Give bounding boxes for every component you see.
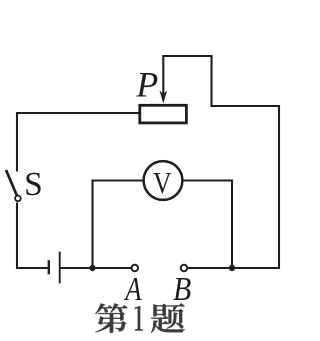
svg-text:A: A <box>124 270 142 308</box>
svg-text:V: V <box>153 167 172 201</box>
svg-text:S: S <box>24 166 43 203</box>
svg-text:B: B <box>173 269 191 307</box>
svg-text:P: P <box>135 64 158 104</box>
